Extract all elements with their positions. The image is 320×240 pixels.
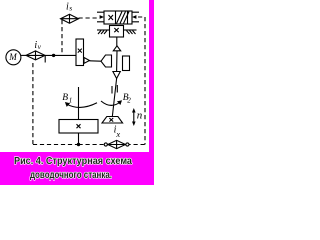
svg-text:n: n <box>137 110 143 122</box>
svg-text:В: В <box>62 93 68 103</box>
svg-text:М: М <box>8 52 17 62</box>
svg-text:x: x <box>115 129 120 139</box>
svg-text:1: 1 <box>69 97 73 105</box>
svg-text:2: 2 <box>127 97 131 105</box>
svg-text:s: s <box>69 4 72 13</box>
svg-text:доводочного станка.: доводочного станка. <box>30 170 112 181</box>
svg-text:Рис. 4. Структурная схема: Рис. 4. Структурная схема <box>14 156 132 167</box>
